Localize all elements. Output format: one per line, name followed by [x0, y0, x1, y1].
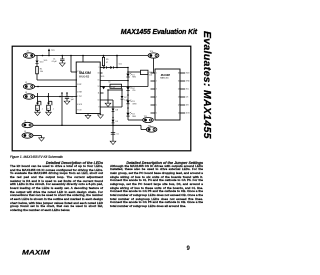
svg-text:J1: J1	[27, 51, 30, 53]
svg-text:4: 4	[156, 97, 157, 99]
svg-text:9: 9	[98, 107, 99, 109]
svg-text:D9: D9	[116, 121, 118, 123]
ground (x113)	[110, 141, 116, 144]
sidebar vertical text	[200, 31, 210, 139]
svg-text:MAXIM: MAXIM	[161, 73, 171, 77]
svg-text:2: 2	[156, 81, 157, 83]
connector J1	[23, 51, 34, 59]
diode D6	[110, 66, 128, 69]
ground (R2)	[46, 110, 52, 115]
svg-text:C4: C4	[108, 82, 110, 84]
wire TP4 to U2	[154, 58, 156, 73]
svg-text:TP2: TP2	[148, 125, 151, 127]
svg-text:1: 1	[98, 67, 99, 69]
svg-text:12: 12	[178, 105, 180, 107]
svg-text:TP4: TP4	[150, 51, 153, 53]
svg-text:GND: GND	[186, 81, 191, 83]
svg-text:11: 11	[178, 113, 180, 115]
U1 pin16 VDD stub	[100, 73, 105, 78]
resistor R1	[36, 67, 43, 81]
figure caption	[10, 155, 63, 159]
svg-text:D10: D10	[40, 62, 43, 64]
wire rail to U1 top pin	[82, 55, 84, 62]
svg-text:11: 11	[98, 93, 100, 95]
svg-text:C5: C5	[116, 133, 118, 135]
svg-text:12: 12	[98, 86, 100, 88]
svg-text:14: 14	[178, 89, 180, 91]
test point TP2	[146, 125, 157, 132]
wire U1 pin15 to LED chain	[100, 81, 128, 93]
svg-text:10k: 10k	[149, 75, 152, 77]
wire J4 to TP2	[33, 125, 146, 130]
node (60,96.5)	[59, 96, 61, 98]
svg-text:16: 16	[178, 73, 180, 75]
U2 pin labels right	[178, 73, 180, 115]
wire U1 pin12 to LED chain	[100, 86, 128, 88]
right column heading	[110, 161, 203, 165]
node rail junctions	[42, 55, 118, 57]
svg-text:47: 47	[106, 62, 108, 64]
capacitor C5	[111, 133, 119, 136]
wire J3 to U1	[35, 96, 77, 98]
svg-text:1: 1	[156, 73, 157, 75]
svg-text:10: 10	[98, 100, 100, 102]
test point TP3 arrow	[48, 48, 55, 56]
resistor R10	[128, 70, 153, 86]
svg-text:5 TST: 5 TST	[77, 96, 82, 98]
ground (C3)	[64, 101, 70, 104]
wire VDD rail	[35, 55, 149, 57]
svg-text:MAX1455: MAX1455	[79, 76, 90, 79]
left column body	[10, 165, 103, 213]
svg-text:TP3: TP3	[51, 50, 54, 52]
svg-text:1µF: 1µF	[71, 99, 75, 101]
capacitor C3	[65, 92, 75, 101]
ground (J5)	[33, 136, 44, 142]
svg-text:C1: C1	[53, 58, 55, 60]
capacitor C7 (sensor filter)	[47, 93, 54, 111]
page number	[187, 246, 190, 252]
svg-text:16: 16	[98, 73, 100, 75]
svg-text:6 SCK: 6 SCK	[77, 104, 83, 106]
LED D1	[126, 73, 136, 79]
U1 pin numbers left	[77, 71, 83, 112]
svg-text:3 INP: 3 INP	[77, 84, 82, 86]
svg-text:7 DIO: 7 DIO	[77, 110, 82, 112]
svg-text:VDD: VDD	[101, 76, 105, 78]
svg-text:SCL: SCL	[186, 89, 189, 91]
svg-text:15: 15	[178, 81, 180, 83]
svg-text:RED: RED	[132, 116, 136, 118]
LED chain wire	[127, 67, 129, 120]
diode D5	[100, 66, 110, 69]
capacitor C1	[52, 56, 65, 64]
svg-text:C6: C6	[36, 108, 38, 110]
wire vertical x62 from J3 net	[61, 92, 63, 125]
svg-text:0.1µF: 0.1µF	[52, 61, 58, 63]
connector J5	[22, 131, 33, 138]
diode D10	[36, 56, 44, 67]
MAXIM logo	[22, 248, 50, 255]
test point TP4	[148, 51, 159, 58]
connector J2	[23, 82, 34, 89]
connector J3	[23, 92, 34, 99]
svg-text:.1: .1	[42, 109, 43, 111]
wire U1 pin10 to x113	[100, 100, 113, 141]
LED D2	[126, 86, 135, 92]
right column body	[110, 165, 203, 209]
capacitor C6 (sensor filter)	[36, 93, 43, 111]
U2 net labels right	[186, 73, 191, 115]
svg-text:YEL: YEL	[132, 90, 135, 92]
diode D9	[112, 120, 118, 126]
svg-text:.1: .1	[53, 109, 54, 111]
node (48,96.5)	[47, 96, 49, 98]
component box C4 inline	[108, 82, 121, 89]
page title	[121, 29, 197, 36]
resistor R4	[102, 56, 108, 66]
svg-text:VDD: VDD	[186, 73, 190, 75]
svg-text:CS: CS	[186, 97, 189, 99]
U2 pins left	[151, 73, 156, 113]
svg-text:RED: RED	[132, 77, 136, 79]
wire x71 rail to U1 pin2	[71, 56, 77, 73]
zener D7	[121, 90, 129, 107]
wire J2 to U1	[35, 86, 77, 88]
connector J4	[22, 121, 33, 128]
U2 pin numbers left	[156, 73, 157, 115]
ground (C1)	[59, 63, 65, 66]
svg-text:3: 3	[156, 89, 157, 91]
ground (R3)	[35, 110, 41, 115]
svg-text:GRN: GRN	[132, 104, 137, 106]
svg-text:10k: 10k	[40, 71, 43, 73]
test point TP1	[128, 116, 153, 123]
ground (U1 bottom left)	[85, 114, 91, 119]
svg-text:DIO: DIO	[186, 105, 190, 107]
svg-text:C7: C7	[47, 108, 49, 110]
wire U1 pin9 to zener	[100, 106, 122, 108]
node (38,86.5)	[37, 86, 39, 88]
wire R1 to U1 pin	[37, 79, 77, 81]
svg-text:4 INM: 4 INM	[77, 92, 82, 94]
wire x117 rail drop	[116, 55, 118, 69]
left column heading	[10, 161, 103, 165]
svg-text:6: 6	[156, 113, 157, 115]
IC U2	[155, 69, 180, 120]
ground (U1 pin13 filled)	[100, 86, 105, 89]
LED D4	[126, 112, 136, 118]
wire loop top	[107, 88, 123, 103]
U2 pins right	[180, 73, 185, 113]
ground (U1 bottom right)	[98, 114, 104, 119]
IC U1 MAX1455	[76, 62, 100, 114]
svg-text:5: 5	[156, 105, 157, 107]
LED D3	[126, 100, 137, 106]
svg-text:DOU: DOU	[186, 113, 191, 115]
svg-text:15: 15	[98, 80, 100, 82]
svg-text:MAX1455: MAX1455	[160, 77, 168, 80]
U1 pin numbers right	[98, 67, 100, 109]
svg-text:13: 13	[178, 97, 180, 99]
svg-text:VDD: VDD	[44, 60, 48, 62]
diode D8	[112, 109, 118, 119]
svg-text:D11: D11	[119, 64, 122, 66]
svg-text:TP1: TP1	[144, 116, 147, 118]
ground (loop)	[105, 103, 111, 106]
svg-text:D8: D8	[116, 110, 118, 112]
